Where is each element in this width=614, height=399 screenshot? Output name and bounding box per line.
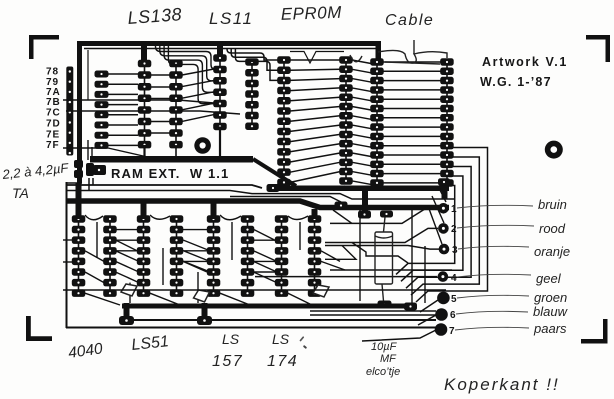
wires signal rows to pins 1-4 bbox=[255, 208, 452, 276]
handwritten rood bbox=[539, 221, 566, 236]
wire stub top to U2 bbox=[217, 44, 223, 55]
svg-text:LS138: LS138 bbox=[127, 4, 183, 28]
handwritten EPROM bbox=[280, 3, 342, 24]
wire bundle U2-U3 curves bbox=[227, 48, 278, 80]
IC U1 LS138 right pads bbox=[169, 60, 183, 149]
mounting hole donut right bbox=[545, 141, 563, 159]
svg-text:5: 5 bbox=[451, 294, 457, 305]
pad header pin 6 bbox=[435, 308, 456, 321]
wire bottom nested 1 bbox=[130, 319, 436, 321]
handwritten LS11 bbox=[209, 9, 253, 28]
wire U2L tail to bar bbox=[219, 127, 221, 158]
wire stub bar end down bbox=[442, 186, 448, 199]
svg-text:rood: rood bbox=[539, 221, 566, 236]
wires diag to pins 5-7 bbox=[362, 300, 438, 341]
svg-text:7E: 7E bbox=[46, 130, 60, 141]
wire U1R tail to bar bbox=[175, 145, 177, 157]
handwritten LS 157 bbox=[212, 331, 243, 370]
mounting hole donut left bbox=[194, 137, 211, 154]
wire stub bus to U7 right bbox=[312, 209, 318, 219]
crop mark top-right bbox=[586, 35, 610, 62]
IC U5 LS51 right pads bbox=[170, 215, 184, 297]
diode D2 bbox=[194, 290, 210, 302]
connector labels 78-7F bbox=[46, 67, 61, 152]
svg-text:LS11: LS11 bbox=[209, 9, 253, 28]
pad C2 bottom bbox=[378, 301, 392, 309]
wire U3 top V link bbox=[290, 52, 344, 64]
label RAM EXT. W 1.1 bbox=[111, 166, 229, 181]
GND bar above RAM EXT bbox=[90, 156, 296, 186]
photocopy speck 2 bbox=[303, 345, 307, 349]
pad mount A bbox=[119, 316, 134, 325]
IC U6 LS157 left pads bbox=[207, 215, 221, 297]
wires bottom section horizontals bbox=[63, 230, 276, 272]
pad header pin 1 bbox=[438, 203, 457, 215]
wire stub mount A bbox=[124, 303, 130, 317]
pad header pin 3 bbox=[439, 244, 458, 256]
wires bus staircase right bbox=[325, 210, 408, 263]
inner ground trace top bbox=[84, 49, 378, 101]
svg-text:LS: LS bbox=[272, 331, 290, 347]
svg-text:paars: paars bbox=[533, 321, 567, 336]
pad near pin1 bbox=[438, 178, 450, 186]
svg-text:EPR0M: EPR0M bbox=[280, 3, 342, 24]
svg-text:Artwork V.1: Artwork V.1 bbox=[482, 55, 568, 69]
GND bar below cable columns bbox=[267, 186, 449, 192]
pad header pin 2 bbox=[438, 223, 457, 235]
svg-text:7F: 7F bbox=[46, 140, 60, 151]
svg-text:4: 4 bbox=[451, 273, 457, 284]
handwritten LS 174 bbox=[267, 331, 298, 370]
wires U3 EPROM left-right fan bbox=[290, 60, 340, 182]
wires bottom diagonals bbox=[85, 230, 345, 305]
wire stub bus to U4 bbox=[76, 183, 82, 219]
wire stub top to U1 bbox=[141, 44, 147, 60]
svg-text:Cable: Cable bbox=[385, 12, 434, 29]
wires U3 to cable column 1 bbox=[352, 60, 371, 184]
handwritten geel bbox=[536, 271, 562, 286]
capacitor C2 electrolytic 10uF bbox=[375, 217, 393, 301]
pad header pin 4 bbox=[438, 271, 457, 284]
IC U3 EPROM left pads bbox=[277, 56, 291, 186]
svg-text:2: 2 bbox=[451, 224, 457, 235]
pad on bus 1 bbox=[335, 202, 348, 210]
wires U1 to U2 bbox=[182, 69, 214, 121]
svg-text:groen: groen bbox=[534, 290, 567, 305]
crop mark bottom-left bbox=[26, 316, 52, 341]
diode D3 bbox=[313, 285, 329, 297]
photocopy speck 3 bbox=[299, 336, 304, 342]
wires top hooks bottom ICs bbox=[85, 215, 308, 285]
handwritten 2,2 a 4,2uF TA bbox=[1, 160, 70, 201]
svg-text:elco’tje: elco’tje bbox=[366, 366, 400, 378]
IC U4 4040 right pads bbox=[103, 215, 117, 297]
diode D1 bbox=[121, 284, 137, 296]
handwritten paars bbox=[533, 321, 567, 336]
svg-text:oranje: oranje bbox=[534, 244, 570, 259]
capacitor C1 tantalum bbox=[74, 160, 106, 190]
svg-text:bruin: bruin bbox=[538, 197, 567, 212]
svg-text:Koperkant !!: Koperkant !! bbox=[444, 375, 560, 394]
handwritten bruin bbox=[538, 197, 567, 212]
handwritten groen bbox=[534, 290, 567, 305]
IC U7 LS174 left pads bbox=[275, 215, 289, 297]
wire long horizontal y290 bbox=[63, 289, 446, 291]
svg-text:10µF: 10µF bbox=[371, 341, 398, 353]
svg-text:geel: geel bbox=[536, 271, 562, 286]
handwritten blauw bbox=[533, 304, 569, 319]
wires U1 internal bbox=[151, 75, 170, 133]
svg-text:3: 3 bbox=[452, 245, 458, 256]
wire U1L tail to bar bbox=[143, 145, 145, 157]
wire stub bus to U6 bbox=[211, 203, 217, 219]
wires cable flat fan bbox=[383, 62, 441, 183]
cable wires arcs bbox=[350, 40, 447, 64]
wires pins 1-3 to pads bbox=[428, 186, 446, 244]
svg-text:blauw: blauw bbox=[533, 304, 569, 319]
handwritten 10uF MF elco bbox=[366, 341, 400, 378]
svg-text:7C: 7C bbox=[46, 108, 61, 119]
label Artwork V.1 bbox=[482, 55, 568, 69]
handwritten LS51 bbox=[131, 333, 170, 354]
connector strip J1 bbox=[66, 67, 73, 156]
wire mid separator 1 bbox=[67, 185, 262, 188]
label W.G. 1-'87 bbox=[480, 75, 552, 89]
cable connector column 1 bbox=[370, 58, 384, 187]
handwritten Cable bbox=[385, 12, 434, 29]
handwritten oranje bbox=[534, 244, 570, 259]
pad C2 top bbox=[380, 211, 393, 218]
handwritten 4040 bbox=[67, 340, 104, 362]
power bus mid bbox=[67, 201, 449, 208]
wires nested wrap right bbox=[396, 148, 488, 303]
IC U7 LS174 right pads bbox=[308, 215, 322, 297]
wires pin to colour labels bbox=[455, 205, 534, 330]
wire U3 bottom arc bbox=[284, 186, 345, 189]
IC U3 EPROM right pads bbox=[339, 56, 353, 185]
svg-text:174: 174 bbox=[267, 353, 298, 370]
wire bundle U1 curves bbox=[156, 46, 217, 104]
handwritten LS138 bbox=[127, 4, 183, 28]
IC U5 LS51 left pads bbox=[137, 215, 151, 297]
svg-text:LS: LS bbox=[222, 331, 240, 347]
wires J1 bus to U1 bbox=[108, 74, 138, 145]
svg-text:7D: 7D bbox=[46, 119, 61, 130]
wires address bus horizontals bbox=[63, 100, 240, 161]
pad on GND bar left bbox=[267, 184, 280, 192]
crop mark top-left bbox=[29, 35, 59, 59]
wire stub bus to U5 bbox=[141, 203, 147, 219]
pad header pin 7 bbox=[435, 323, 455, 337]
wires mid verticals right bbox=[360, 210, 425, 303]
wire bottom nested 3 bbox=[310, 310, 436, 312]
svg-text:TA: TA bbox=[12, 185, 29, 201]
pad below bus bbox=[358, 211, 371, 219]
pad bus right 1 bbox=[404, 303, 417, 311]
svg-text:78: 78 bbox=[46, 67, 59, 78]
IC U4 4040 left pads bbox=[72, 215, 86, 297]
svg-text:7: 7 bbox=[449, 326, 455, 337]
svg-text:W.G. 1-’87: W.G. 1-’87 bbox=[480, 75, 552, 89]
board cable stub bbox=[376, 44, 382, 62]
wire stub bar to pad bbox=[362, 187, 368, 213]
wire bottom nested 2 bbox=[310, 314, 436, 316]
wire mid separator 2 bbox=[67, 191, 455, 200]
board left lower edge bbox=[66, 182, 436, 328]
IC U2 LS11 right pads bbox=[245, 58, 259, 130]
wire stub mount B bbox=[202, 303, 208, 317]
wire mid separator 3 bbox=[230, 197, 344, 204]
svg-text:6: 6 bbox=[450, 310, 456, 321]
IC U1 LS138 left pads bbox=[138, 60, 152, 149]
power bus bottom bbox=[122, 304, 414, 309]
handwritten koperkant !! bbox=[444, 375, 560, 394]
pad header pin 5 bbox=[437, 292, 457, 305]
svg-text:7B: 7B bbox=[46, 97, 61, 108]
resistor-pack pads column B bbox=[95, 71, 109, 149]
IC U2 LS11 left pads bbox=[213, 54, 227, 130]
cable connector column 2 bbox=[440, 58, 454, 187]
IC U6 LS157 right pads bbox=[241, 215, 255, 297]
svg-text:MF: MF bbox=[380, 353, 397, 365]
pad mount B bbox=[197, 316, 212, 325]
board top edge bbox=[77, 41, 381, 183]
svg-text:157: 157 bbox=[212, 353, 243, 370]
svg-text:RAM EXT. W 1.1: RAM EXT. W 1.1 bbox=[111, 166, 229, 181]
crop mark bottom-right bbox=[581, 319, 608, 344]
svg-text:1: 1 bbox=[451, 204, 457, 215]
